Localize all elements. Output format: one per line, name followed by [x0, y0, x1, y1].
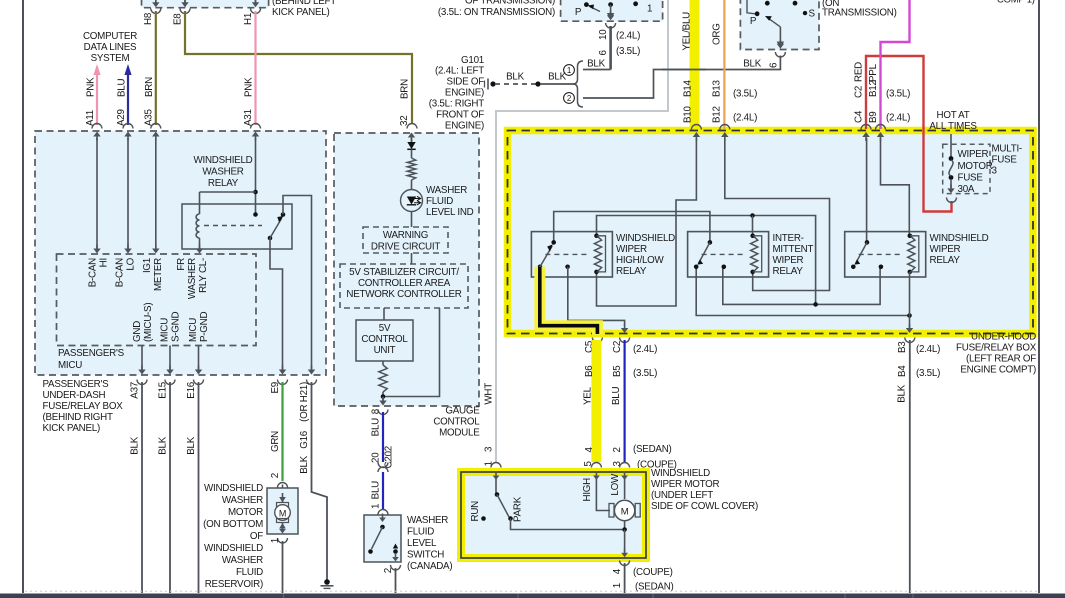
- under-hood fuse/relay box: [508, 131, 1034, 334]
- wire washer motor pin 1 ground: [279, 529, 286, 534]
- svg-text:B9: B9: [868, 112, 879, 123]
- diode washer fluid: [411, 138, 413, 142]
- svg-text:4: 4: [612, 568, 623, 574]
- svg-text:LO: LO: [126, 257, 137, 270]
- svg-text:ALL TIMES: ALL TIMES: [929, 121, 977, 132]
- svg-text:(2.4L): (2.4L): [733, 113, 757, 124]
- svg-text:WINDSHIELD: WINDSHIELD: [204, 543, 263, 554]
- svg-text:20: 20: [371, 452, 382, 463]
- svg-text:FLUID: FLUID: [236, 567, 263, 578]
- wire BLK ground solid: [540, 83, 575, 85]
- node third contact bus junction: [813, 302, 818, 307]
- wiper motor run/park switch: [495, 479, 497, 493]
- resistor washer fluid ind: [407, 158, 415, 180]
- svg-text:NETWORK CONTROLLER: NETWORK CONTROLLER: [346, 289, 461, 300]
- svg-text:(BEHIND RIGHT: (BEHIND RIGHT: [43, 412, 113, 423]
- node gauge output junction: [381, 394, 386, 399]
- svg-text:UNDER-HOOD: UNDER-HOOD: [971, 332, 1036, 343]
- wire relay3 coil bottom to B3 exit: [909, 272, 911, 328]
- svg-text:3: 3: [484, 446, 495, 452]
- svg-text:(UNDER LEFT: (UNDER LEFT: [651, 490, 713, 501]
- 5v stabilizer circuit box: [340, 264, 468, 308]
- wire BLK ground dashed: [495, 83, 536, 85]
- svg-text:A31: A31: [243, 109, 254, 126]
- wire A11 PNK b-can hi: [93, 64, 100, 75]
- svg-text:KICK PANEL): KICK PANEL): [43, 423, 101, 434]
- svg-text:OF TRANSMISSION): OF TRANSMISSION): [465, 0, 555, 7]
- passengers under-dash fuse/relay box: [35, 131, 326, 375]
- transmission box 2.4L internals: [584, 2, 589, 7]
- wire BLK splice 2 to transmission pin 6: [583, 70, 780, 99]
- svg-text:PARK: PARK: [513, 496, 524, 522]
- svg-text:GRN: GRN: [270, 431, 281, 452]
- svg-text:FUSE/RELAY BOX: FUSE/RELAY BOX: [43, 401, 124, 412]
- svg-text:(2.4L): (2.4L): [616, 31, 640, 42]
- splice brace: [573, 61, 583, 107]
- svg-text:OF: OF: [250, 531, 263, 542]
- node 1: [564, 65, 575, 76]
- svg-text:WARNING: WARNING: [383, 230, 428, 241]
- 5v control unit box: [356, 320, 413, 361]
- bottom bar: [25, 590, 1040, 592]
- transmission connector box 2.4L: [561, 0, 663, 21]
- gauge control module box: [334, 133, 479, 406]
- svg-text:BLU: BLU: [117, 79, 128, 97]
- relay intermittent wiper relay U2: [688, 232, 769, 277]
- svg-text:FRONT OF: FRONT OF: [436, 110, 484, 121]
- svg-text:SWITCH: SWITCH: [407, 550, 444, 561]
- svg-text:BLK: BLK: [130, 436, 141, 454]
- svg-text:2: 2: [612, 447, 623, 452]
- svg-text:P-GND: P-GND: [199, 312, 210, 342]
- node coil bus junction: [750, 213, 755, 218]
- svg-text:SYSTEM: SYSTEM: [91, 53, 130, 64]
- wire relay2 pivot to B3 exit: [696, 267, 909, 316]
- wire wiper motor return: [624, 521, 626, 530]
- svg-text:(3.5L): (3.5L): [633, 368, 657, 379]
- svg-text:YEL: YEL: [583, 386, 594, 405]
- svg-text:4: 4: [584, 447, 595, 453]
- svg-text:UNIT: UNIT: [374, 345, 396, 356]
- svg-text:MULTI-: MULTI-: [992, 144, 1022, 155]
- svg-text:2: 2: [270, 473, 281, 478]
- svg-text:M: M: [279, 509, 286, 519]
- svg-text:S-GND: S-GND: [171, 312, 182, 342]
- washer fluid level indicator lamp: [411, 180, 413, 190]
- svg-text:1: 1: [270, 538, 281, 543]
- svg-text:DATA LINES: DATA LINES: [84, 42, 137, 53]
- wire A29 BLU b-can lo: [124, 64, 131, 75]
- svg-text:WASHER: WASHER: [222, 495, 263, 506]
- svg-text:(CANADA): (CANADA): [407, 561, 452, 572]
- svg-text:(BEHIND LEFT: (BEHIND LEFT: [272, 0, 336, 7]
- svg-text:LOW: LOW: [610, 473, 621, 496]
- wire third contact bus: [723, 267, 880, 305]
- svg-text:E8: E8: [173, 13, 184, 25]
- connector box behind left kick panel: [142, 0, 269, 8]
- svg-text:P: P: [750, 16, 757, 27]
- wire YEL/BLU inside under-hood box: [597, 138, 697, 306]
- resistor below 5v control unit: [382, 361, 384, 365]
- svg-text:FLUID: FLUID: [407, 527, 434, 538]
- svg-text:WINDSHIELD: WINDSHIELD: [616, 233, 675, 244]
- svg-text:MODULE: MODULE: [439, 428, 480, 439]
- relay windshield washer relay box: [182, 204, 292, 249]
- svg-text:(OR H21): (OR H21): [299, 382, 310, 422]
- svg-text:(3.5L): (3.5L): [916, 368, 940, 379]
- wire bus relay coil tops: [597, 216, 816, 305]
- wire RED hot feed: [866, 56, 952, 212]
- svg-text:B-CAN: B-CAN: [88, 258, 99, 287]
- wire warning to stabilizer: [411, 253, 413, 264]
- relay windshield wiper relay U3: [845, 232, 926, 277]
- right page border line: [1038, 0, 1040, 593]
- svg-text:BRN: BRN: [144, 77, 155, 97]
- svg-text:FUSE: FUSE: [958, 173, 984, 184]
- svg-text:A35: A35: [144, 109, 155, 126]
- washer fluid level switch: [364, 515, 401, 562]
- svg-text:MOTOR: MOTOR: [228, 507, 263, 518]
- svg-text:TRANSMISSION): TRANSMISSION): [822, 8, 897, 19]
- svg-text:B10: B10: [683, 106, 694, 123]
- svg-text:M: M: [621, 507, 629, 518]
- svg-text:C2: C2: [854, 86, 865, 98]
- wire washer relay coil to FR WASHER RLY CL-: [199, 238, 201, 250]
- transmission box 3.5L internals: [765, 1, 770, 6]
- svg-text:BLK: BLK: [506, 72, 524, 83]
- svg-text:PPL: PPL: [868, 63, 879, 82]
- svg-text:UNDER-DASH: UNDER-DASH: [43, 390, 106, 401]
- svg-text:C202: C202: [384, 446, 395, 468]
- svg-text:IG1: IG1: [142, 258, 153, 273]
- node 2: [564, 93, 575, 104]
- ground G101: [484, 81, 486, 88]
- wire washer relay fixed contact to G16: [283, 196, 312, 372]
- wire RED inside box to wiper relay contact: [866, 138, 868, 242]
- svg-text:YEL/BLU: YEL/BLU: [682, 12, 693, 51]
- svg-text:MICU: MICU: [160, 318, 171, 342]
- svg-text:FUSE/RELAY BOX: FUSE/RELAY BOX: [956, 343, 1037, 354]
- svg-text:BLK: BLK: [299, 455, 310, 473]
- svg-text:8: 8: [371, 408, 382, 414]
- svg-text:G101: G101: [461, 55, 484, 66]
- svg-text:2: 2: [383, 568, 394, 573]
- svg-text:MICU: MICU: [188, 318, 199, 342]
- fuse wiper motor fuse 30A: [950, 134, 952, 157]
- svg-text:C4: C4: [854, 110, 865, 123]
- svg-text:ENGINE): ENGINE): [445, 121, 484, 132]
- svg-text:BRN: BRN: [400, 79, 411, 99]
- svg-text:WASHER: WASHER: [407, 515, 448, 526]
- svg-text:BLK: BLK: [743, 59, 761, 70]
- svg-text:WHT: WHT: [484, 383, 495, 405]
- wire A37 BLK ground: [141, 346, 143, 371]
- svg-text:LEVEL IND: LEVEL IND: [426, 207, 474, 218]
- svg-text:1: 1: [647, 4, 652, 15]
- svg-text:CONTROL: CONTROL: [361, 334, 408, 345]
- svg-text:SIDE OF COWL COVER): SIDE OF COWL COVER): [651, 501, 758, 512]
- wiper motor M: [609, 504, 614, 518]
- svg-text:G16: G16: [299, 430, 310, 449]
- svg-text:WINDSHIELD: WINDSHIELD: [204, 483, 263, 494]
- svg-text:WASHER: WASHER: [426, 185, 467, 196]
- wire stabilizer right leg: [385, 308, 440, 397]
- svg-text:BLK: BLK: [587, 59, 605, 70]
- svg-text:KICK PANEL): KICK PANEL): [272, 7, 330, 18]
- svg-text:PASSENGER'S: PASSENGER'S: [43, 379, 110, 390]
- svg-text:WINDSHIELD: WINDSHIELD: [930, 233, 989, 244]
- svg-text:E16: E16: [186, 381, 197, 398]
- svg-text:METER: METER: [153, 258, 164, 291]
- svg-text:PNK: PNK: [86, 77, 97, 97]
- svg-text:WIPER: WIPER: [773, 255, 804, 266]
- svg-text:WASHER: WASHER: [202, 167, 243, 178]
- svg-text:BLK: BLK: [548, 72, 566, 83]
- svg-text:B-CAN: B-CAN: [115, 258, 126, 287]
- svg-text:30A: 30A: [958, 184, 975, 195]
- svg-text:RED: RED: [854, 62, 865, 82]
- wire E16 BLK ground: [198, 346, 200, 371]
- svg-text:E9: E9: [270, 382, 281, 393]
- svg-text:RELAY: RELAY: [616, 266, 647, 277]
- svg-text:MICU: MICU: [58, 360, 82, 371]
- wire relay1 third contact to C3 exit: [568, 267, 625, 326]
- svg-text:P: P: [575, 7, 582, 18]
- windshield wiper motor box: [461, 472, 646, 558]
- transmission connector box 3.5L: [740, 0, 819, 50]
- wire B3 BLK ground: [905, 338, 915, 343]
- svg-text:B13: B13: [712, 80, 723, 97]
- svg-text:FLUID: FLUID: [426, 196, 453, 207]
- svg-text:COMPUTER: COMPUTER: [83, 31, 137, 42]
- node B3 junction: [907, 313, 912, 318]
- left page border line: [22, 0, 24, 593]
- svg-text:PASSENGER'S: PASSENGER'S: [58, 348, 125, 359]
- svg-text:B3: B3: [897, 341, 908, 353]
- svg-text:BLK: BLK: [186, 436, 197, 454]
- svg-text:GND: GND: [132, 321, 143, 342]
- svg-text:FR: FR: [176, 258, 187, 271]
- wire H1 PNK to A31: [255, 0, 257, 3]
- washer motor M: [267, 488, 298, 534]
- wire park contact to motor return: [511, 519, 625, 530]
- svg-text:C2: C2: [612, 341, 623, 353]
- svg-text:WIPER: WIPER: [616, 244, 647, 255]
- wire WHT to wiper motor: [496, 0, 668, 462]
- svg-text:(COUPE): (COUPE): [633, 567, 673, 578]
- svg-text:WASHER: WASHER: [222, 555, 263, 566]
- wire ORG: [723, 0, 725, 129]
- svg-text:WINDSHIELD: WINDSHIELD: [651, 468, 710, 479]
- svg-text:MOTOR: MOTOR: [958, 161, 993, 172]
- wire A31 to washer relay coil: [253, 190, 258, 195]
- svg-text:B6: B6: [584, 365, 595, 377]
- svg-text:COMP 1): COMP 1): [997, 0, 1035, 6]
- wire ORG inside under-hood box to intermittent relay coil: [725, 138, 830, 291]
- wire high brush: [596, 479, 610, 511]
- svg-text:INTER-: INTER-: [773, 233, 804, 244]
- svg-text:(3.5L): (3.5L): [733, 89, 757, 100]
- svg-text:B12: B12: [868, 80, 879, 97]
- svg-text:ENGINE): ENGINE): [445, 88, 484, 99]
- wire stabilizer to 5v control unit: [383, 308, 385, 320]
- svg-text:HI: HI: [99, 258, 110, 267]
- svg-text:FUSE: FUSE: [992, 155, 1018, 166]
- wire H8 BRN to A35: [155, 0, 157, 3]
- svg-text:(3.5L): (3.5L): [616, 46, 640, 57]
- svg-text:MITTENT: MITTENT: [773, 244, 814, 255]
- svg-text:WIPER: WIPER: [930, 244, 961, 255]
- wire splice 2 crossing patch: [662, 69, 706, 71]
- wire BLU 8 to C202: [382, 397, 384, 401]
- svg-text:(3.5L): (3.5L): [886, 89, 910, 100]
- svg-text:1: 1: [612, 583, 623, 588]
- wire G16 BLK to ground: [307, 380, 317, 385]
- svg-text:B12: B12: [712, 106, 723, 123]
- wire E8 BRN to pin 32: [184, 0, 186, 3]
- svg-text:GAUGE: GAUGE: [445, 406, 480, 417]
- svg-text:S: S: [809, 9, 816, 20]
- svg-text:6: 6: [769, 62, 780, 68]
- svg-text:B5: B5: [612, 365, 623, 377]
- svg-text:H1: H1: [243, 13, 254, 25]
- ground G16: [324, 579, 330, 585]
- wire highlighted BLK relay1 pivot to C5: [540, 267, 598, 335]
- svg-text:DRIVE CIRCUIT: DRIVE CIRCUIT: [371, 242, 440, 253]
- svg-text:ENGINE COMPT): ENGINE COMPT): [960, 365, 1036, 376]
- svg-text:A37: A37: [130, 382, 141, 399]
- svg-text:HIGH: HIGH: [582, 478, 593, 502]
- svg-text:WINDSHIELD: WINDSHIELD: [193, 155, 252, 166]
- multi-fuse box: [943, 144, 990, 193]
- warning drive circuit box: [363, 227, 448, 253]
- washer relay coil: [196, 214, 199, 238]
- svg-text:(2.4L): (2.4L): [916, 344, 940, 355]
- svg-text:H8: H8: [143, 12, 154, 25]
- wire wiper motor ground pins: [620, 561, 630, 566]
- svg-text:(3.5L: ON TRANSMISSION): (3.5L: ON TRANSMISSION): [438, 7, 555, 18]
- svg-text:BLK: BLK: [897, 384, 908, 402]
- washer relay switch: [268, 236, 273, 241]
- washer relay contact dashed line: [204, 225, 262, 227]
- svg-text:E15: E15: [158, 381, 169, 398]
- svg-text:BLU: BLU: [371, 418, 382, 436]
- relay windshield wiper high/low relay U1: [531, 232, 612, 277]
- svg-text:HOT AT: HOT AT: [937, 110, 970, 121]
- wire relay2 coil top tap: [752, 216, 754, 236]
- svg-text:5V: 5V: [379, 323, 391, 334]
- svg-text:BLK: BLK: [158, 436, 169, 454]
- svg-text:SIDE OF: SIDE OF: [447, 77, 485, 88]
- wire C5 B6 YEL to wiper motor high: [592, 338, 602, 343]
- wire PPL: [881, 0, 910, 129]
- svg-text:WASHER: WASHER: [187, 258, 198, 299]
- svg-text:BLU: BLU: [611, 387, 622, 405]
- svg-text:LEVEL: LEVEL: [407, 538, 437, 549]
- svg-text:RESERVOIR): RESERVOIR): [205, 579, 263, 590]
- wire E15 BLK ground: [169, 346, 171, 371]
- svg-text:RELAY: RELAY: [930, 255, 961, 266]
- svg-text:WIPER MOTOR: WIPER MOTOR: [651, 479, 720, 490]
- svg-text:B14: B14: [683, 80, 694, 97]
- svg-text:(SEDAN): (SEDAN): [633, 444, 672, 455]
- wire YEL/BLU: [690, 0, 700, 129]
- svg-text:(2.4L): (2.4L): [633, 344, 657, 355]
- svg-text:(MICU-S): (MICU-S): [143, 303, 154, 342]
- svg-text:B4: B4: [897, 365, 908, 377]
- svg-text:ORG: ORG: [712, 23, 723, 45]
- svg-text:(2.4L: LEFT: (2.4L: LEFT: [435, 66, 484, 77]
- passengers MICU box: [57, 254, 257, 346]
- svg-text:WIPER: WIPER: [958, 149, 989, 160]
- wire low brush: [624, 479, 626, 499]
- svg-text:RUN: RUN: [470, 501, 481, 522]
- svg-text:(ON BOTTOM: (ON BOTTOM: [203, 519, 263, 530]
- svg-text:RLY CL-: RLY CL-: [198, 258, 209, 293]
- wire PPL inside box to wiper relay coil: [881, 138, 910, 235]
- svg-text:HIGH/LOW: HIGH/LOW: [616, 255, 665, 266]
- svg-text:10: 10: [598, 29, 609, 40]
- svg-text:1: 1: [371, 504, 382, 509]
- wire C3 B5 BLU to wiper motor low: [620, 338, 630, 343]
- svg-text:RELAY: RELAY: [773, 266, 804, 277]
- svg-text:RELAY: RELAY: [208, 178, 239, 189]
- wire washer relay pivot to E9: [270, 238, 283, 371]
- svg-text:(LEFT REAR OF: (LEFT REAR OF: [966, 354, 1036, 365]
- wire bus relay1 to relay2 fixed contacts: [554, 212, 710, 243]
- wire washer fluid switch pin 2: [392, 557, 399, 562]
- svg-text:CONTROLLER AREA: CONTROLLER AREA: [358, 278, 451, 289]
- svg-text:CONTROL: CONTROL: [433, 417, 480, 428]
- svg-text:(3.5L: RIGHT: (3.5L: RIGHT: [429, 99, 485, 110]
- wire E9 GRN to washer motor: [278, 380, 288, 385]
- svg-text:BLU: BLU: [371, 481, 382, 499]
- svg-text:6: 6: [598, 50, 609, 56]
- svg-text:5V STABILIZER CIRCUIT/: 5V STABILIZER CIRCUIT/: [349, 267, 459, 278]
- svg-text:PNK: PNK: [244, 77, 255, 97]
- wire BLU 1 to washer fluid switch: [382, 472, 384, 509]
- svg-text:(2.4L): (2.4L): [886, 113, 910, 124]
